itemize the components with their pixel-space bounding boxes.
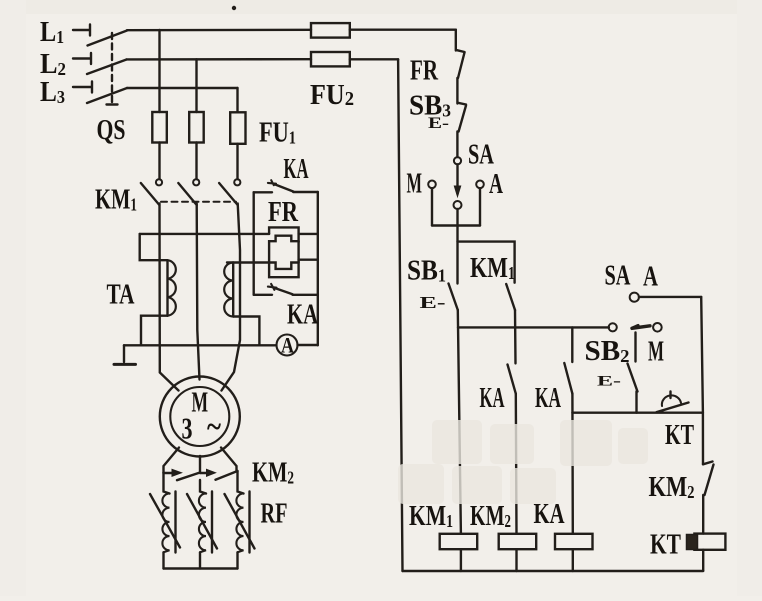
svg-text:KA: KA <box>284 154 309 185</box>
contact KA branch1 <box>508 365 516 394</box>
svg-text:M: M <box>407 169 423 200</box>
heater FR element <box>269 227 299 277</box>
time contact KT <box>657 392 689 413</box>
transformer TA winding 1 <box>168 260 176 316</box>
wire KA branch1 down to coil <box>515 394 518 534</box>
wire FR to SB3 <box>456 78 458 104</box>
svg-text:M: M <box>648 337 664 368</box>
contactor KM2 pole A <box>164 469 201 480</box>
wire rung1 <box>458 326 609 328</box>
wire drop phase1 <box>158 30 160 112</box>
wire SB1 down to coil <box>458 310 461 534</box>
resistor RF phase2 <box>187 480 217 569</box>
selector SA M-contact left terminal <box>609 323 617 331</box>
contactor KM1 main pole 3 <box>219 179 240 205</box>
wire KM1 aux down <box>514 310 517 363</box>
contactor KM2 pole B <box>200 469 238 479</box>
fuse FU1 b <box>189 112 204 143</box>
wire rung2 <box>572 412 703 414</box>
resistor RF phase3 <box>225 471 255 569</box>
TA bus wire <box>140 233 269 235</box>
svg-text:M: M <box>192 388 209 419</box>
wire L3 <box>127 87 238 89</box>
wire ammeter long lead <box>124 344 276 346</box>
wire phase3 down <box>222 204 241 391</box>
rotor lead 1 <box>164 448 180 474</box>
ground <box>114 345 136 364</box>
wire winding2 top to FR heater <box>227 261 269 263</box>
wire M stub <box>431 188 433 225</box>
wire winding1 bottom jog <box>141 316 168 346</box>
svg-text:~: ~ <box>207 408 221 444</box>
wire KA branch2 top <box>571 327 573 362</box>
wire rail to KT coil <box>702 495 704 534</box>
contact KM1 aux <box>506 284 515 310</box>
terminal L1 lead <box>73 25 90 36</box>
svg-text:TA: TA <box>107 279 135 311</box>
svg-text:KA: KA <box>535 383 561 414</box>
wire KA left vertical <box>252 192 254 294</box>
KM1 linkage dashed <box>161 201 236 203</box>
wire L1 to FU2 <box>127 29 311 32</box>
wire bottom bus <box>403 570 704 572</box>
wire A stub <box>479 188 481 225</box>
selector SA top terminal <box>454 157 461 164</box>
wire phase2 down <box>197 204 200 380</box>
wire selector bottom bar <box>432 224 480 226</box>
TA winding1 spine <box>166 260 168 316</box>
wire ammeter right <box>298 344 318 346</box>
ammeter A <box>277 333 298 358</box>
pushbutton SB2 stem <box>634 333 636 362</box>
wire drop phase3 <box>236 88 238 112</box>
svg-text:3: 3 <box>182 411 193 446</box>
svg-text:A: A <box>281 333 294 358</box>
SA M-contact blade <box>632 326 650 329</box>
wire FU2b to left control rail <box>350 58 398 60</box>
terminal L3 lead <box>73 82 92 93</box>
wire fuse1 to KM1 <box>158 143 160 180</box>
QS pole 1 blade <box>88 31 128 46</box>
wire KM1 coil to bus <box>460 549 462 571</box>
wire drop phase2 <box>195 59 197 112</box>
svg-text:E-: E- <box>420 293 447 312</box>
wire SA common down <box>456 209 458 284</box>
svg-text:FR: FR <box>410 56 439 87</box>
wire winding2 bottom jog <box>233 317 259 346</box>
QS pole 3 blade <box>87 88 127 103</box>
thermal contact FR <box>457 50 465 78</box>
selector SA M-contact right terminal <box>653 323 662 332</box>
wire A-contact to right rail <box>639 296 701 298</box>
fuse FU2 a <box>311 23 350 37</box>
svg-text:FR: FR <box>268 197 299 228</box>
fuse FU1 a <box>152 112 167 143</box>
contactor KM1 main pole 2 <box>178 179 199 205</box>
svg-text:A: A <box>643 262 659 293</box>
wire KA branch2 down to coil <box>571 394 574 534</box>
svg-text:KT: KT <box>650 530 681 561</box>
speck <box>232 6 236 10</box>
rotor lead 3 <box>221 448 237 472</box>
wire phase1 down <box>160 204 179 391</box>
wire FU2a to right rail <box>350 29 456 31</box>
motor M circles <box>160 377 240 457</box>
svg-text:SA: SA <box>605 261 632 292</box>
rotor lead 2 <box>199 456 201 473</box>
TA left jog wire <box>140 234 167 260</box>
wire top right drop <box>455 30 457 51</box>
relay contact KA upper <box>254 180 318 192</box>
selector terminal A <box>476 181 484 189</box>
selector SA wiper arrow <box>454 165 460 197</box>
wire KT coil to bus <box>702 550 704 571</box>
wire right rail mid <box>317 192 319 345</box>
coil KM1 <box>440 534 478 549</box>
svg-text:A: A <box>489 169 504 200</box>
wire KA coil to bus <box>572 549 574 571</box>
switch QS linkage <box>107 33 118 105</box>
wire left control rail <box>398 59 402 571</box>
svg-text:QS: QS <box>97 115 126 146</box>
wire FR heater right top <box>299 233 318 235</box>
selector SA common terminal <box>454 201 462 209</box>
svg-text:KA: KA <box>287 300 319 331</box>
contactor KM1 main pole 1 <box>141 179 162 205</box>
selector terminal M <box>428 181 436 189</box>
rotor bottom bus <box>164 567 238 569</box>
svg-text:RF: RF <box>261 499 288 530</box>
fuse FU2 b <box>311 52 350 66</box>
wire SB3 to SA <box>456 132 458 158</box>
pushbutton SB1 <box>420 284 458 313</box>
coil KM2 <box>499 534 537 549</box>
svg-text:KT: KT <box>665 420 694 451</box>
contact KM2 NC on rail <box>703 462 714 496</box>
wire KM2 coil to bus <box>515 549 517 571</box>
QS pole 2 blade <box>87 60 127 75</box>
wire FR heater right bottom <box>299 259 318 261</box>
wire fuse2 to KM1 <box>195 143 197 180</box>
terminal L2 lead <box>73 53 91 64</box>
selector SA A-contact terminal <box>630 293 639 302</box>
pushbutton SB2 <box>597 364 638 392</box>
pushbutton SB3 <box>428 103 466 132</box>
contact KA branch2 <box>564 363 572 394</box>
wire SB2 down <box>635 392 637 413</box>
fuse FU1 c <box>230 112 245 144</box>
svg-text:SA: SA <box>468 140 495 171</box>
resistor RF phase1 <box>150 473 180 569</box>
wire KM1 aux branch top <box>458 242 515 283</box>
transformer TA winding 2 <box>224 263 233 317</box>
wire L2 to FU2 <box>127 58 312 61</box>
wire right rail <box>701 297 703 464</box>
watermark <box>398 420 648 504</box>
coil KA <box>555 534 593 549</box>
coil KT <box>687 534 726 550</box>
TA winding2 spine <box>232 263 234 317</box>
relay contact KA lower <box>254 284 318 295</box>
svg-text:E-: E- <box>597 374 621 390</box>
svg-text:KA: KA <box>480 383 505 414</box>
wire fuse3 to KM1 <box>236 144 238 179</box>
